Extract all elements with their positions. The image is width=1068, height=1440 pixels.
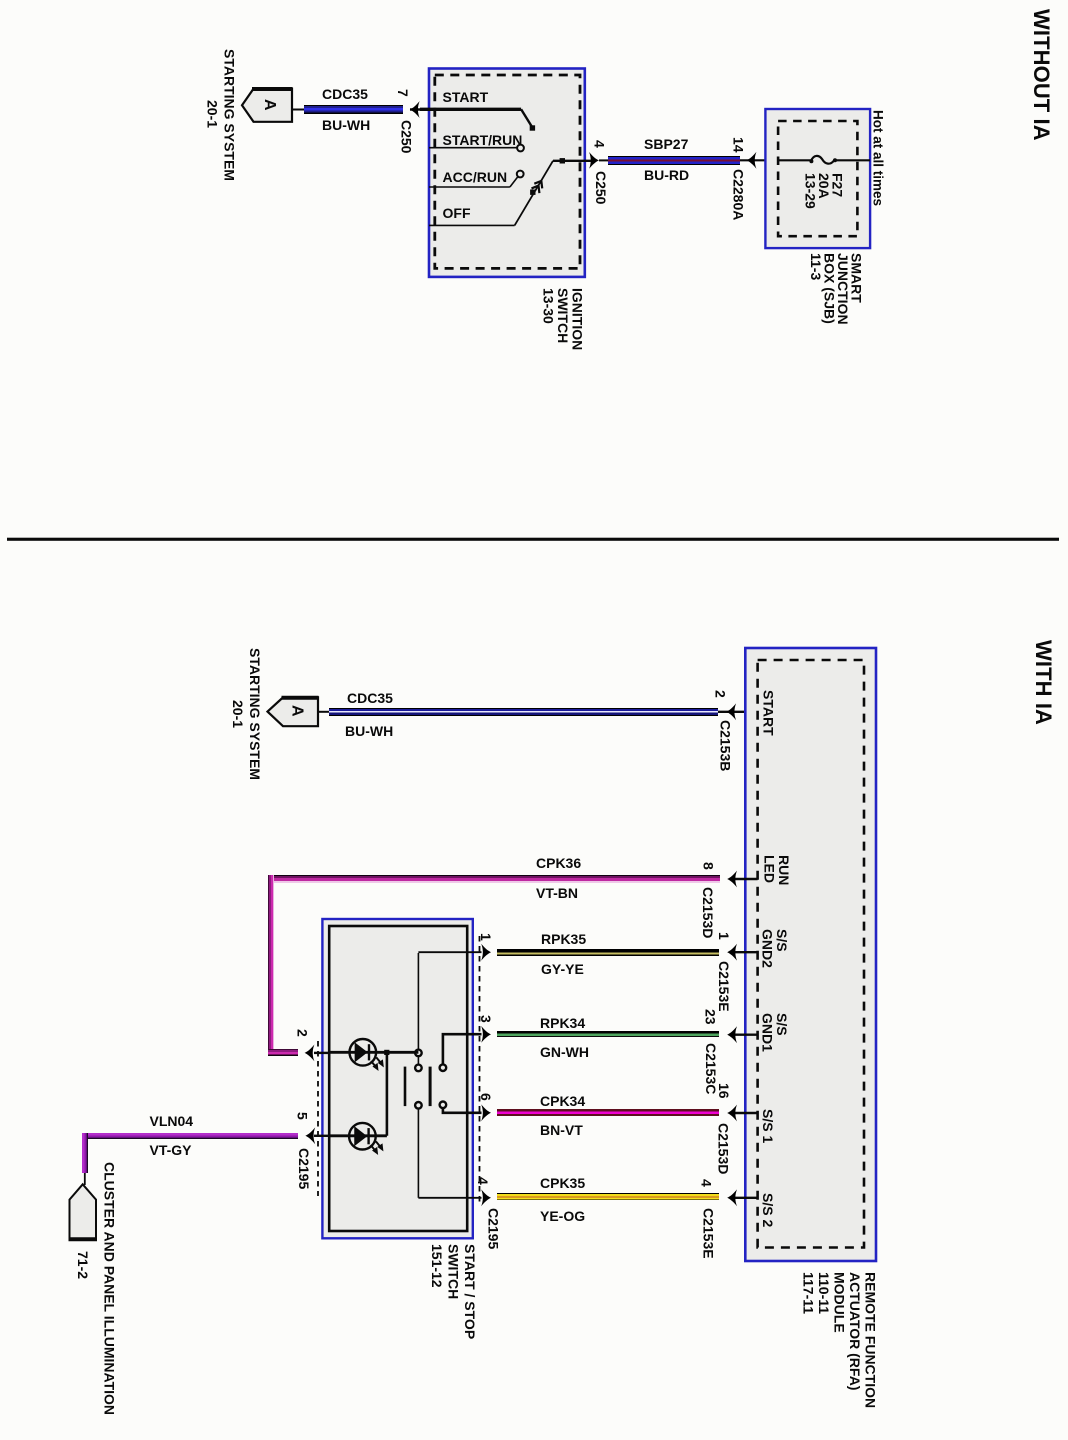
connector C2153E xyxy=(717,961,732,1012)
wire CPK35 YE-OG band xyxy=(497,1193,720,1200)
wire VLN04 VT-GY band (vertical) xyxy=(82,1133,89,1173)
pin 7 xyxy=(396,89,411,97)
connector arrow at C250 pin 7 xyxy=(410,101,420,118)
LED 2 xyxy=(329,1123,387,1154)
wire name CPK36 xyxy=(536,856,581,870)
label start/stop switch xyxy=(429,1244,479,1339)
wire CPK36 VT-BN band (horizontal) xyxy=(268,875,720,883)
wire CDC35 lead xyxy=(292,109,306,111)
label A (bottom) xyxy=(289,705,305,717)
switch output wire to pin 4 xyxy=(553,160,592,162)
RFA wire stubs xyxy=(735,878,758,880)
label remote function actuator module xyxy=(800,1272,878,1408)
wire pin5 (left) xyxy=(314,1135,329,1137)
switch pin 6 xyxy=(479,1093,494,1101)
wire name VLN04 xyxy=(150,1114,194,1128)
connector C2195 dashed lines xyxy=(317,1041,319,1196)
wire name SBP27 xyxy=(644,137,688,151)
wire CPK35 stub (pin4) xyxy=(418,1197,481,1199)
connector C2153C xyxy=(704,1043,719,1094)
wire pin2 (left) xyxy=(314,1052,329,1054)
connector C2153B xyxy=(718,720,733,771)
connector arrow at C250 pin 4 xyxy=(589,152,599,169)
wire CPK34 BN-VT band xyxy=(497,1109,720,1116)
wire SBP27 BU-RD band xyxy=(608,156,740,165)
wire name CPK34 xyxy=(540,1094,585,1108)
section header WITH IA xyxy=(1031,640,1056,725)
wire RPK35 stub (pin1) xyxy=(418,951,481,953)
switch pin 4 xyxy=(476,1177,491,1185)
connector C250 (pin7) xyxy=(399,120,414,153)
wire RPK34 GN-WH band xyxy=(497,1031,720,1038)
connector C2153E (pin4) xyxy=(701,1208,716,1259)
label starting system (bottom) xyxy=(229,648,263,780)
ACC/RUN contact wire xyxy=(429,186,510,188)
section header WITHOUT IA xyxy=(1029,9,1054,141)
cluster pentagon connector xyxy=(84,1172,86,1185)
label hot at all times xyxy=(870,110,885,206)
ignition switch box xyxy=(429,69,585,277)
node A arrow (starting system, bottom) xyxy=(268,697,319,726)
label A (top) xyxy=(261,99,277,111)
connector C2195 (left) xyxy=(297,1148,312,1189)
smart junction box xyxy=(765,109,870,248)
START/RUN contact wire xyxy=(429,147,518,149)
label cluster and panel illumination xyxy=(102,1162,117,1415)
switch pin 2 xyxy=(295,1029,310,1037)
signal S/S GND2 xyxy=(760,929,789,968)
wire CPK34 stub (pin6) xyxy=(443,1108,482,1113)
wire name RPK34 xyxy=(540,1016,585,1030)
wire CDC35 BU-WH band (top) xyxy=(304,105,403,114)
pin 14 xyxy=(731,137,746,153)
connector arrow at C2280A pin 14 xyxy=(747,152,757,169)
pin 16 xyxy=(717,1083,732,1099)
pin 2 (RFA) xyxy=(713,690,728,698)
wire CDC35 BU-WH band (bottom) xyxy=(329,708,718,716)
switch pin 3 xyxy=(479,1015,494,1023)
wiper arm xyxy=(515,161,553,226)
start/stop switch box xyxy=(322,919,472,1238)
switch pin 5 xyxy=(295,1112,310,1120)
fuse F27 xyxy=(778,159,811,161)
connector C2280A xyxy=(731,169,746,220)
wire VLN04 VT-GY band (horizontal) xyxy=(84,1133,298,1140)
pin 8 xyxy=(701,862,716,870)
signal RUN LED xyxy=(762,855,791,885)
switch contacts xyxy=(417,953,419,1049)
remote function actuator module box xyxy=(745,648,876,1261)
junction + vertical link xyxy=(384,1050,389,1055)
signal S/S 1 xyxy=(761,1109,776,1143)
label 71-2 xyxy=(76,1251,91,1279)
pin 1 (RFA) xyxy=(717,932,732,940)
switch pin 1 xyxy=(479,933,494,941)
connector C250 (pin4) xyxy=(594,171,609,204)
wire name RPK35 xyxy=(541,932,586,946)
ignition switch positions xyxy=(443,90,489,104)
fuse F27 label xyxy=(803,173,844,209)
wire CDC35 lead (bottom) xyxy=(318,711,331,713)
OFF contact wire xyxy=(429,224,515,226)
wire CPK36 VT-BN band (bottom stub) xyxy=(268,1049,298,1056)
wire name CPK35 xyxy=(540,1176,585,1190)
label starting system (top) xyxy=(204,49,238,181)
signal S/S 2 xyxy=(761,1193,776,1227)
wire stub into ignition switch xyxy=(410,108,435,110)
connector C2153D (pin8) xyxy=(701,887,716,938)
START contact wire xyxy=(420,108,521,111)
node A arrow (starting system, top) xyxy=(242,89,292,122)
wire RPK34 stub (pin3) xyxy=(443,1034,482,1064)
label ignition switch xyxy=(541,288,585,350)
divider xyxy=(7,538,1059,541)
wire CPK36 VT-BN band (vertical) xyxy=(268,875,274,1057)
pin 4 (RFA) xyxy=(699,1179,714,1187)
LED 1 xyxy=(329,1039,418,1070)
connector C2153D (pin16) xyxy=(716,1123,731,1174)
wire stub SBP27 to SJB xyxy=(740,159,810,161)
connector C2195 (right) xyxy=(486,1208,501,1249)
signal S/S GND1 xyxy=(760,1013,789,1052)
pin 4 xyxy=(592,140,607,148)
signal START xyxy=(761,690,776,736)
wire name CDC35 (bottom) xyxy=(347,691,393,705)
wire name CDC35 (top) xyxy=(322,87,368,101)
pin 23 xyxy=(703,1009,718,1025)
label smart junction box xyxy=(809,253,863,325)
wire RPK35 GY-YE band xyxy=(497,949,720,956)
